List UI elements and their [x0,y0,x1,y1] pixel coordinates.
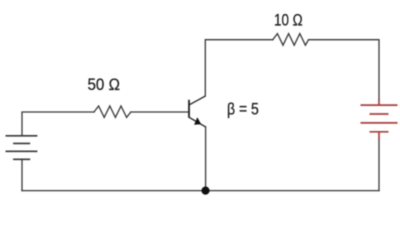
wire emitter vertical to bottom rail [205,127,207,191]
svg-text:50 Ω: 50 Ω [88,75,120,94]
wire right battery bottom to bottom-right corner [378,140,380,191]
Q1 base bar [188,100,190,118]
svg-text:β = 5: β = 5 [227,99,259,118]
wire battery V1 bottom riser [21,159,23,190]
node junction dot [201,187,209,195]
transistor Q1 [189,96,206,127]
resistor R1 50 ohm zigzag [94,106,131,117]
Q1 collector diagonal [189,96,205,105]
wire collector vertical and top run to R2 [205,40,272,96]
svg-text:10 Ω: 10 Ω [274,11,303,30]
wire base net: battery V1 top to resistor R1 [22,112,94,136]
wire bottom rail [22,190,379,192]
resistor R2 10 ohm zigzag [273,34,309,46]
wire R1 to transistor base [131,111,189,113]
Q1 emitter arrow [194,117,201,125]
battery V2 (right, red) [361,99,398,140]
Q1 emitter diagonal [189,117,205,127]
wire R2 to right battery top [309,40,380,99]
battery V1 (left, dark) [6,136,38,160]
